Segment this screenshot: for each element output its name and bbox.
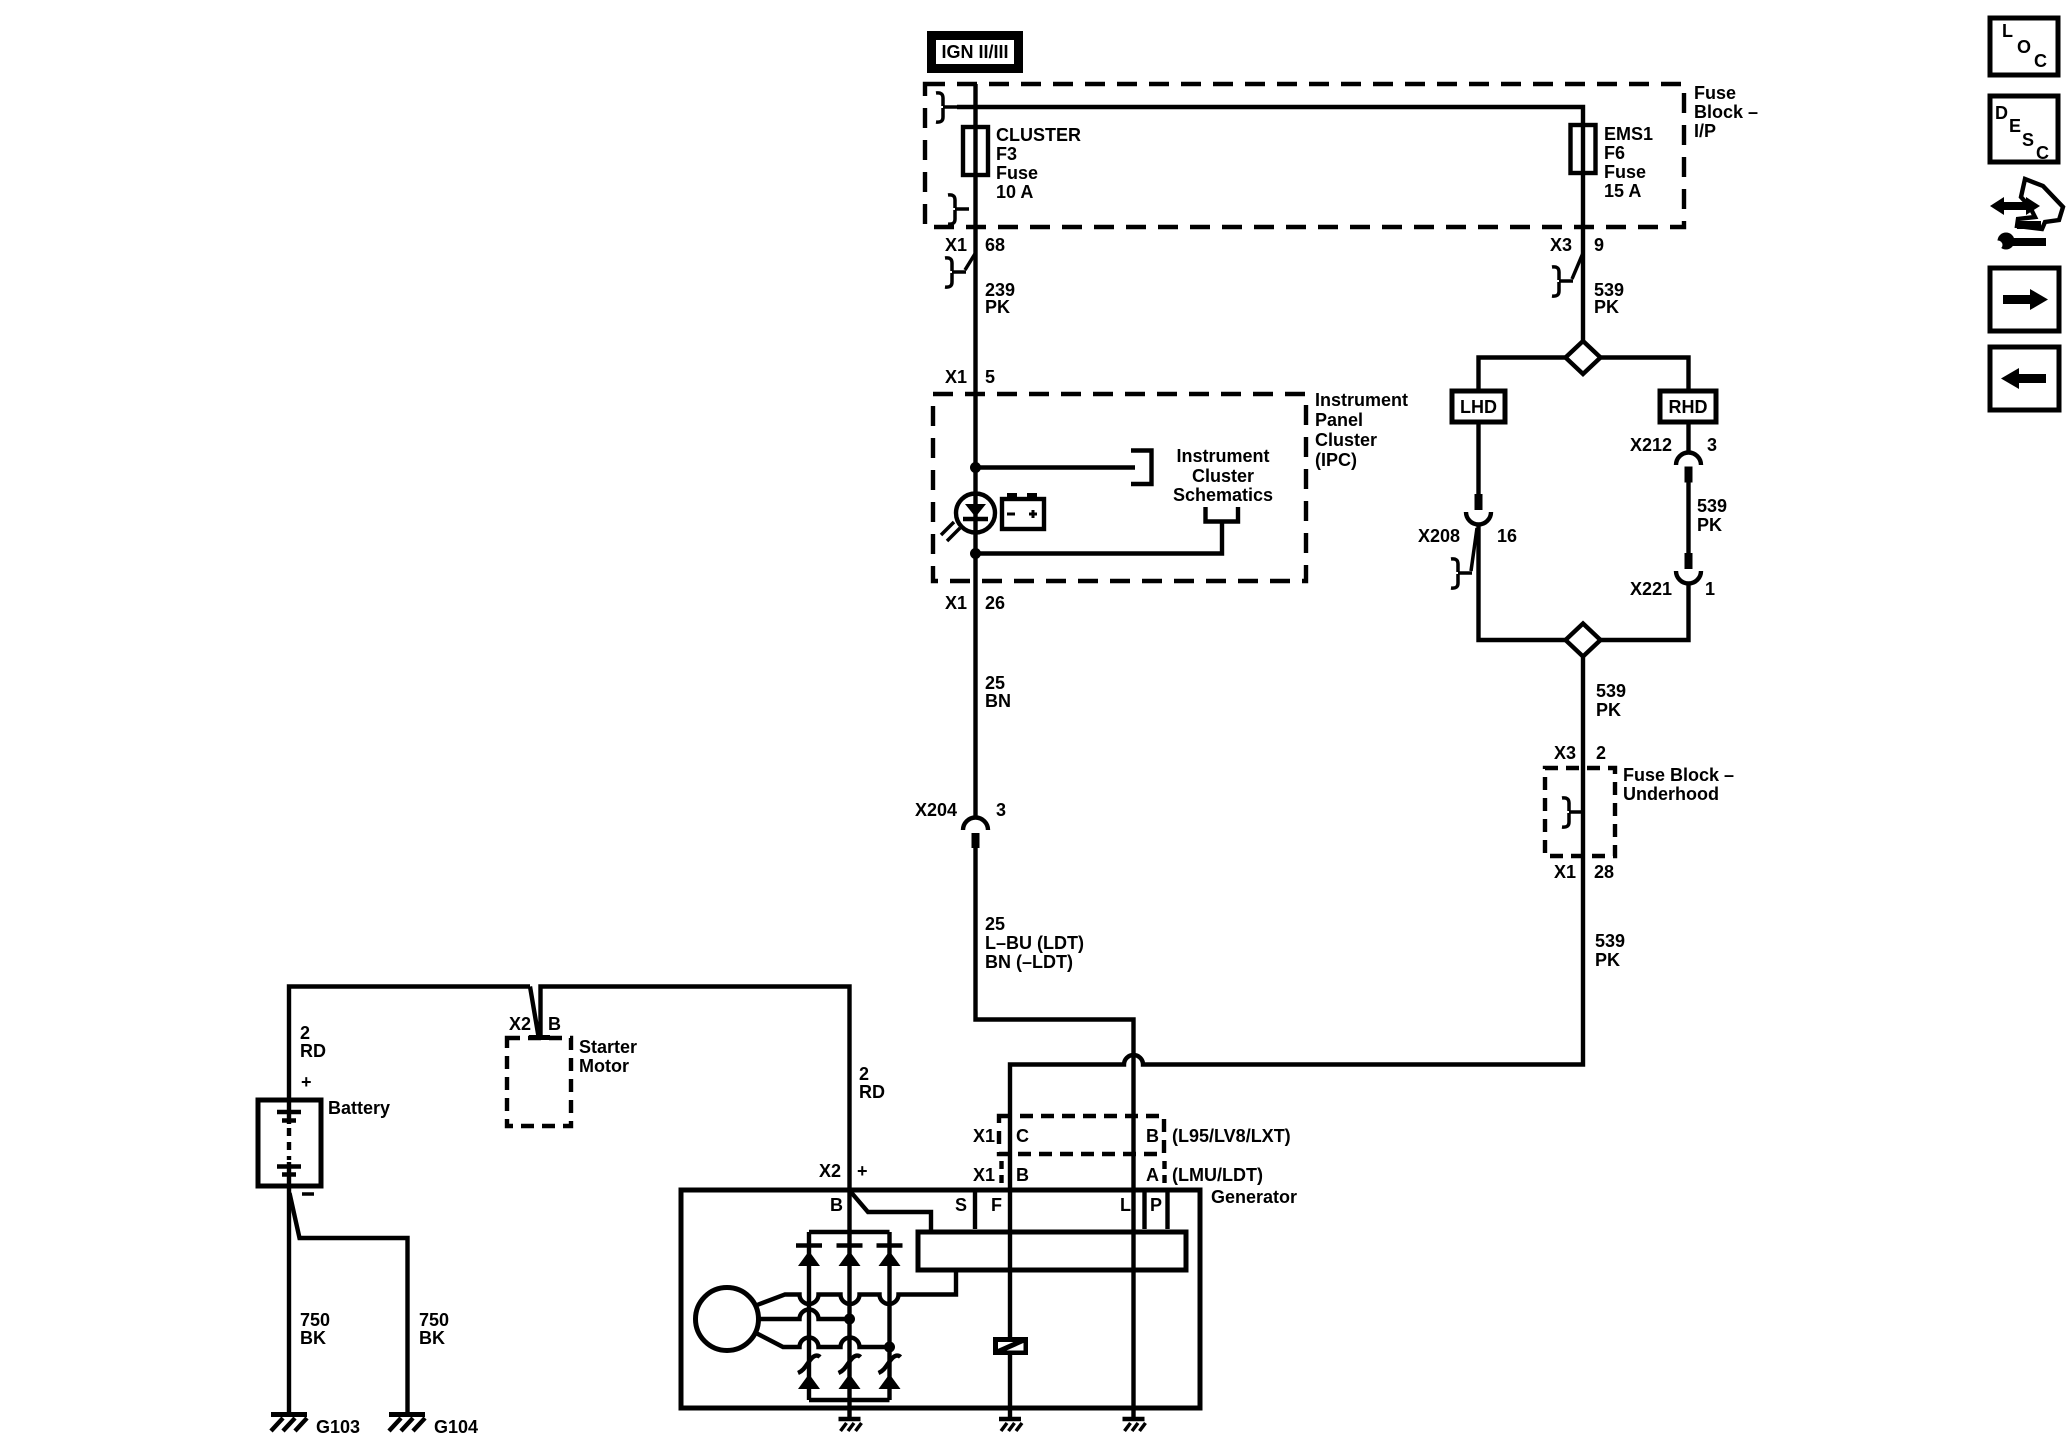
label: Instrument Panel Cluster (IPC): [1315, 390, 1408, 470]
wire label 2 RD (generator leg): [859, 1064, 885, 1102]
svg-text:S: S: [955, 1195, 967, 1215]
svg-text:+: +: [301, 1072, 312, 1092]
svg-text:2: 2: [300, 1023, 310, 1043]
rectifier top bus: [809, 1230, 890, 1234]
svg-text:BN: BN: [985, 691, 1011, 711]
wire from schematics reference lower: [976, 522, 1223, 554]
svg-text:P: P: [1150, 1195, 1162, 1215]
ground G103: [271, 1415, 360, 1438]
svg-text:750: 750: [419, 1310, 449, 1330]
label: Starter Motor: [579, 1037, 637, 1076]
svg-text:RD: RD: [859, 1082, 885, 1102]
connector terminal stub at X1 68: [945, 253, 976, 287]
svg-text:C: C: [2034, 51, 2047, 71]
power source box IGN II/III: [932, 36, 1019, 69]
bracket: schematics reference lower: [1206, 507, 1239, 522]
svg-text:X1: X1: [973, 1126, 995, 1146]
svg-text:X221: X221: [1630, 579, 1672, 599]
wire: 239 PK feed from IGN through CLUSTER fuse down to IPC and X204: [973, 84, 977, 817]
ground at generator F leg: [999, 1419, 1022, 1431]
generator box: [681, 1190, 1200, 1408]
svg-text:(L95/LV8/LXT): (L95/LV8/LXT): [1172, 1126, 1291, 1146]
wire: 539 PK down through underhood fuse block to generator F: [1010, 657, 1583, 1420]
svg-text:L: L: [1120, 1195, 1131, 1215]
wire: splice to LHD branch: [1479, 358, 1566, 392]
svg-text:25: 25: [985, 914, 1005, 934]
rectifier bottom bus: [809, 1398, 890, 1402]
node: IPC lower junction: [970, 548, 981, 559]
svg-text:RHD: RHD: [1669, 397, 1708, 417]
svg-text:L–BU (LDT): L–BU (LDT): [985, 933, 1084, 953]
svg-text:2: 2: [859, 1064, 869, 1084]
terminal curl at fuse block feed: [936, 93, 957, 122]
wire: ground branch to G104: [290, 1193, 408, 1413]
diode D5 (lower mid): [839, 1374, 861, 1389]
svg-text:X3: X3: [1550, 235, 1572, 255]
svg-text:F3: F3: [996, 144, 1017, 164]
wire to instrument cluster schematics reference: [976, 465, 1136, 469]
svg-text:PK: PK: [1594, 297, 1619, 317]
svg-text:28: 28: [1594, 862, 1614, 882]
wire label 2 RD (battery leg): [300, 1023, 326, 1061]
option box RHD: [1660, 391, 1716, 422]
terminal letters B S F L P: [830, 1195, 1162, 1215]
svg-text:C: C: [1016, 1126, 1029, 1146]
wire from X221 to lower splice: [1601, 584, 1689, 641]
in-line connector X221 pin 1: [1630, 553, 1715, 599]
svg-text:Fuse Block –: Fuse Block –: [1623, 765, 1734, 785]
pin label X1 28: [1554, 862, 1614, 882]
svg-text:68: 68: [985, 235, 1005, 255]
svg-text:X2: X2: [509, 1014, 531, 1034]
wire below RHD: [1686, 422, 1690, 453]
splice diamond lower: [1566, 624, 1601, 657]
battery negative mark: [302, 1192, 314, 1196]
fuse F3 CLUSTER 10A: [963, 125, 1081, 202]
brush mark mid: [839, 1356, 861, 1373]
svg-text:X1: X1: [945, 367, 967, 387]
svg-text:F6: F6: [1604, 143, 1625, 163]
wire label 539 PK (RHD leg): [1697, 496, 1727, 535]
svg-text:X1: X1: [945, 235, 967, 255]
svg-text:X1: X1: [1554, 862, 1576, 882]
svg-text:1: 1: [1705, 579, 1715, 599]
svg-text:Cluster: Cluster: [1192, 466, 1254, 486]
svg-text:9: 9: [1594, 235, 1604, 255]
svg-text:Instrument: Instrument: [1315, 390, 1408, 410]
legend box forward arrow: [1990, 268, 2059, 331]
stator phase 1 winding lead (to regulator): [757, 1270, 956, 1305]
legend box DESC: [1990, 96, 2058, 163]
battery telltale icon: [1002, 493, 1044, 529]
svg-text:Panel: Panel: [1315, 410, 1363, 430]
svg-text:X204: X204: [915, 800, 957, 820]
svg-text:B: B: [548, 1014, 561, 1034]
zener diode block on F circuit: [993, 1337, 1028, 1355]
wire label 239 PK: [985, 280, 1015, 317]
legend box LOC: [1990, 18, 2058, 75]
wire: 25 circuit from X204 down to generator L terminal: [976, 848, 1134, 1419]
rectifier left leg: [807, 1232, 811, 1400]
svg-text:3: 3: [1707, 435, 1717, 455]
in-line connector X212 pin 3: [1630, 435, 1717, 483]
svg-text:PK: PK: [1697, 515, 1722, 535]
svg-text:L: L: [2002, 21, 2013, 41]
svg-text:A: A: [1146, 1165, 1159, 1185]
svg-text:25: 25: [985, 673, 1005, 693]
svg-text:C: C: [2036, 143, 2049, 163]
svg-text:PK: PK: [985, 297, 1010, 317]
svg-text:Battery: Battery: [328, 1098, 390, 1118]
wire: splice to RHD branch: [1601, 358, 1689, 392]
svg-text:Fuse: Fuse: [1694, 83, 1736, 103]
svg-text:I/P: I/P: [1694, 121, 1716, 141]
svg-text:EMS1: EMS1: [1604, 124, 1653, 144]
battery G1: [258, 1098, 390, 1186]
wire label 750 BK (right): [419, 1310, 449, 1348]
svg-text:5: 5: [985, 367, 995, 387]
wire label 539 PK (right of EMS1 output): [1594, 280, 1624, 317]
svg-text:Starter: Starter: [579, 1037, 637, 1057]
indicator lamp (charge telltale): [941, 494, 995, 542]
svg-text:Fuse: Fuse: [1604, 162, 1646, 182]
svg-text:BK: BK: [300, 1328, 326, 1348]
connector row X1 C B (L95/LV8/LXT): [973, 1116, 1291, 1154]
svg-text:10 A: 10 A: [996, 182, 1033, 202]
bracket: schematics reference upper: [1131, 451, 1152, 485]
svg-text:IGN II/III: IGN II/III: [941, 42, 1008, 62]
diode D1 (upper left): [796, 1246, 822, 1267]
svg-text:S: S: [2022, 130, 2034, 150]
svg-text:CLUSTER: CLUSTER: [996, 125, 1081, 145]
pin label X1 5: [945, 367, 995, 387]
pin label X2 + (generator B): [819, 1161, 868, 1181]
svg-text:D: D: [1995, 103, 2008, 123]
wire: fuse block jumper to EMS1 fuse, down to splice diamond: [957, 107, 1583, 341]
diode D4 (lower left): [798, 1374, 820, 1389]
svg-text:F: F: [991, 1195, 1002, 1215]
brush mark right: [879, 1356, 901, 1373]
svg-text:539: 539: [1596, 681, 1626, 701]
svg-text:X3: X3: [1554, 743, 1576, 763]
ground at generator B leg: [839, 1419, 862, 1431]
svg-text:LHD: LHD: [1460, 397, 1497, 417]
svg-text:E: E: [2009, 116, 2021, 136]
svg-text:2: 2: [1596, 743, 1606, 763]
svg-text:PK: PK: [1596, 700, 1621, 720]
svg-text:PK: PK: [1595, 950, 1620, 970]
wire: battery negative to G103: [287, 1186, 291, 1413]
stator phase 3 winding lead: [756, 1333, 895, 1353]
ground G104: [389, 1415, 478, 1438]
svg-text:3: 3: [996, 800, 1006, 820]
svg-text:B: B: [1146, 1126, 1159, 1146]
svg-text:539: 539: [1595, 931, 1625, 951]
svg-text:16: 16: [1497, 526, 1517, 546]
splice diamond upper: [1566, 341, 1601, 374]
wire label 25 BN: [985, 673, 1011, 711]
svg-text:X2: X2: [819, 1161, 841, 1181]
svg-text:Generator: Generator: [1211, 1187, 1297, 1207]
connector row X1 B A (LMU/LDT): [973, 1161, 1263, 1187]
pin label X3 9: [1550, 235, 1604, 255]
wire label 750 BK (left): [300, 1310, 330, 1348]
svg-text:Motor: Motor: [579, 1056, 629, 1076]
svg-text:+: +: [857, 1161, 868, 1181]
svg-text:BK: BK: [419, 1328, 445, 1348]
in-line connector X208 pin 16: [1418, 494, 1517, 546]
diode D2 (upper mid): [837, 1246, 863, 1267]
rectifier right leg: [887, 1232, 891, 1400]
option box LHD: [1452, 391, 1505, 422]
wire between X212 and X221: [1686, 483, 1690, 554]
ground at generator L leg: [1123, 1419, 1146, 1431]
wire label 539 PK (below lower splice): [1596, 681, 1626, 720]
terminal curl inside underhood fuse block: [1562, 798, 1583, 827]
label: Fuse Block - Underhood: [1623, 765, 1734, 804]
stator winding circle: [696, 1288, 759, 1351]
wire: B terminal tap to regulator: [850, 1191, 931, 1232]
pin label X2 B (starter): [509, 1014, 561, 1034]
svg-text:X1: X1: [973, 1165, 995, 1185]
label: Instrument Cluster Schematics: [1173, 446, 1273, 505]
svg-text:X208: X208: [1418, 526, 1460, 546]
node: IPC upper junction: [970, 462, 981, 473]
wire: battery positive bus to generator B: [289, 987, 850, 1420]
svg-text:Cluster: Cluster: [1315, 430, 1377, 450]
connector terminal stub at X208: [1451, 528, 1477, 588]
svg-text:26: 26: [985, 593, 1005, 613]
svg-text:G104: G104: [434, 1417, 478, 1437]
pin label X1 68: [945, 235, 1005, 255]
svg-text:B: B: [1016, 1165, 1029, 1185]
pin label X1 26: [945, 593, 1005, 613]
legend box back arrow: [1990, 347, 2059, 410]
svg-text:Schematics: Schematics: [1173, 485, 1273, 505]
fuse F6 EMS1 15A: [1571, 124, 1654, 201]
diode D6 (lower right): [879, 1374, 901, 1389]
svg-text:(IPC): (IPC): [1315, 450, 1357, 470]
svg-text:RD: RD: [300, 1041, 326, 1061]
fuse block I/P dashed outline: [925, 84, 1684, 227]
svg-text:750: 750: [300, 1310, 330, 1330]
terminal curl below CLUSTER fuse: [948, 195, 969, 224]
wire below LHD: [1476, 422, 1480, 494]
diode D3 (upper right): [877, 1246, 903, 1267]
svg-text:B: B: [830, 1195, 843, 1215]
svg-text:(LMU/LDT): (LMU/LDT): [1172, 1165, 1263, 1185]
legend icon service (arrows and wrench): [1990, 179, 2063, 250]
connector terminal stub at X3 9: [1552, 253, 1583, 296]
svg-text:15 A: 15 A: [1604, 181, 1641, 201]
stator phase 2 winding lead: [758, 1310, 855, 1325]
svg-text:Underhood: Underhood: [1623, 784, 1719, 804]
svg-text:O: O: [2017, 37, 2031, 57]
svg-text:X1: X1: [945, 593, 967, 613]
generator terminal dividers: [975, 1190, 1168, 1229]
battery positive mark: [301, 1072, 312, 1092]
wire from X208 to lower splice: [1479, 525, 1566, 641]
starter feed terminal bar: [529, 1035, 550, 1040]
svg-text:X212: X212: [1630, 435, 1672, 455]
svg-text:G103: G103: [316, 1417, 360, 1437]
in-line connector X204 pin 3: [915, 800, 1006, 848]
svg-text:539: 539: [1697, 496, 1727, 516]
svg-text:Block –: Block –: [1694, 102, 1758, 122]
svg-text:BN (–LDT): BN (–LDT): [985, 952, 1073, 972]
wire label 539 PK (above generator): [1595, 931, 1625, 970]
label: Generator: [1211, 1187, 1297, 1207]
voltage regulator block: [918, 1232, 1186, 1270]
wire label 25 L-BU (LDT) BN (-LDT): [985, 914, 1084, 972]
instrument panel cluster dashed outline: [933, 394, 1306, 581]
fuse block underhood dashed outline: [1545, 768, 1615, 856]
svg-text:Instrument: Instrument: [1176, 446, 1269, 466]
label: Fuse Block - I/P: [1694, 83, 1758, 141]
pin label X3 2: [1554, 743, 1606, 763]
brush mark left: [798, 1356, 820, 1373]
starter motor dashed outline: [507, 1038, 571, 1126]
svg-text:Fuse: Fuse: [996, 163, 1038, 183]
